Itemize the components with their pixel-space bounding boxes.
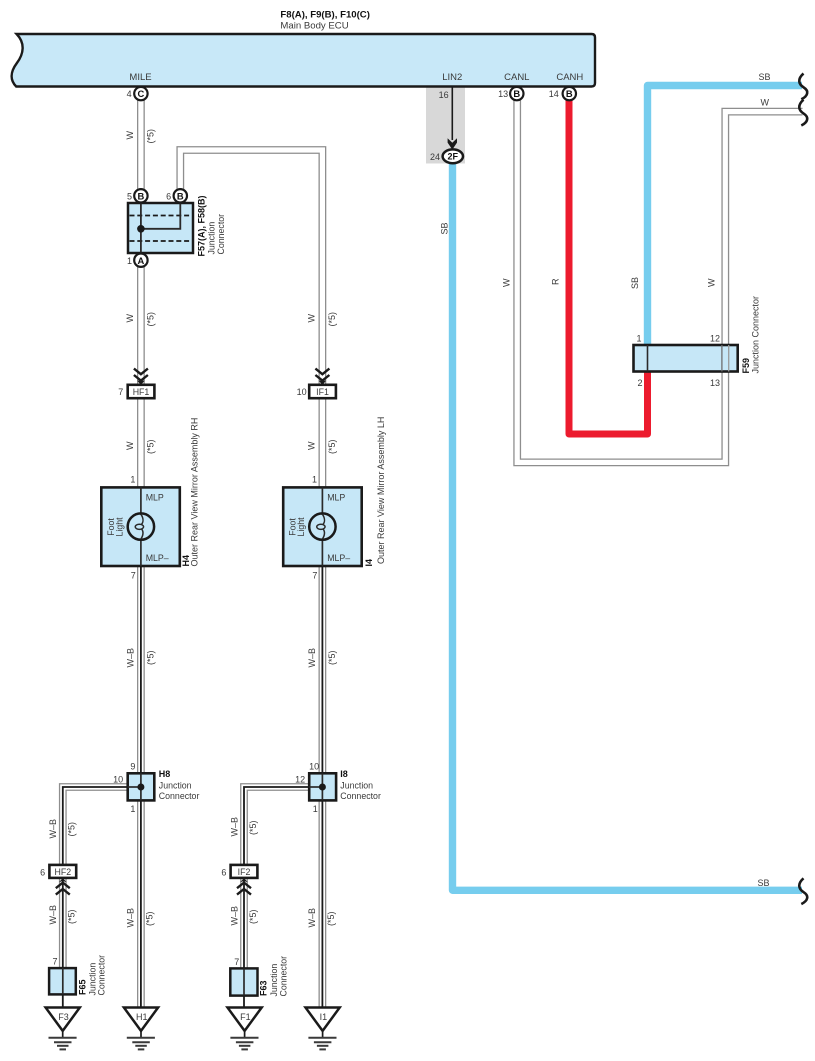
connector HF2: [49, 865, 76, 878]
component I4 Outer Rear View Mirror Assembly LH: [283, 487, 362, 566]
svg-text:(*5): (*5): [146, 129, 156, 144]
svg-text:A: A: [138, 255, 145, 266]
svg-text:Connector: Connector: [159, 791, 200, 801]
svg-text:7: 7: [118, 387, 123, 397]
svg-text:F3: F3: [58, 1012, 69, 1022]
wire F65 to ground F3: [62, 994, 64, 1009]
wire W F57 pin6 to IF1: [180, 150, 322, 385]
svg-text:SB: SB: [439, 222, 449, 234]
pin 4 (C) of ECU: [134, 87, 147, 100]
connector pin 24 (2F): [443, 149, 463, 163]
svg-text:LIN2: LIN2: [442, 72, 462, 83]
wire W CANL pin13 to F59 pin13: [517, 100, 725, 462]
svg-text:W–B: W–B: [48, 819, 58, 839]
svg-text:MLP–: MLP–: [327, 553, 350, 563]
svg-text:10: 10: [309, 762, 319, 772]
junction node dot in H8: [137, 784, 144, 791]
svg-text:HF2: HF2: [54, 867, 71, 877]
svg-text:SB: SB: [758, 878, 770, 888]
svg-text:Junction: Junction: [159, 781, 192, 791]
wire W HF1 to H4 pin1: [137, 398, 145, 488]
svg-text:F8(A), F9(B), F10(C): F8(A), F9(B), F10(C): [280, 10, 370, 21]
svg-text:W–B: W–B: [307, 648, 317, 668]
wire W MILE pin4 to F57 pin5: [137, 100, 145, 189]
ground symbol F1: [230, 1031, 258, 1050]
junction connector I8 box: [309, 773, 336, 800]
junction connector F59 box: [634, 345, 738, 372]
svg-text:MLP–: MLP–: [146, 553, 169, 563]
wire W-B I8 pin1 to ground I1: [318, 800, 326, 1008]
svg-text:Junction: Junction: [340, 781, 373, 791]
svg-text:B: B: [138, 190, 145, 201]
svg-text:HF1: HF1: [133, 387, 150, 397]
ground symbol H1: [127, 1031, 155, 1050]
svg-text:W: W: [307, 441, 317, 450]
svg-text:C: C: [138, 88, 145, 99]
svg-text:1: 1: [312, 475, 317, 485]
wire R CANH pin14 to F59 pin2: [569, 100, 648, 434]
svg-text:I4: I4: [364, 559, 374, 567]
svg-text:Light: Light: [115, 517, 125, 537]
svg-text:(*5): (*5): [326, 911, 336, 926]
shield chevrons above IF1: [315, 369, 329, 381]
break squiggle SB bottom: [799, 878, 807, 904]
ECU box Main Body ECU: [12, 34, 595, 87]
svg-text:1: 1: [130, 804, 135, 814]
svg-text:CANL: CANL: [504, 72, 529, 83]
svg-text:F63: F63: [259, 980, 269, 996]
svg-text:Main Body ECU: Main Body ECU: [280, 20, 348, 31]
svg-text:7: 7: [131, 571, 136, 581]
junction connector F57(A), F58(B) box: [128, 203, 193, 253]
svg-text:13: 13: [498, 89, 508, 99]
wire W-B I4 pin7 to I8 pin10: [318, 566, 326, 775]
pin 5 (B) of F57: [134, 189, 147, 202]
junction connector F65 box: [49, 968, 76, 994]
svg-text:4: 4: [127, 89, 132, 99]
pin 13 (B) of ECU (CANL): [510, 87, 523, 100]
svg-text:10: 10: [113, 774, 123, 784]
pin 1 (A) of F57: [134, 254, 147, 267]
wire W-B I8 pin12 to IF2: [244, 787, 309, 866]
svg-text:SB: SB: [630, 277, 640, 289]
junction connector H8 box: [128, 773, 155, 800]
svg-text:(*5): (*5): [327, 650, 337, 665]
junction node dot in F57: [137, 225, 145, 233]
ground symbol F3: [49, 1031, 77, 1050]
svg-text:(*5): (*5): [67, 909, 77, 924]
svg-text:(*5): (*5): [145, 911, 155, 926]
break squiggle W top: [799, 100, 807, 126]
svg-text:(*5): (*5): [327, 312, 337, 327]
svg-text:B: B: [177, 190, 184, 201]
svg-text:W–B: W–B: [48, 905, 58, 925]
shield band LIN2: [426, 87, 465, 163]
svg-text:MILE: MILE: [129, 72, 151, 83]
svg-text:13: 13: [710, 378, 720, 388]
svg-text:16: 16: [439, 90, 449, 100]
wire inside F59 pin1 to pin2: [647, 345, 649, 372]
svg-text:I1: I1: [320, 1012, 328, 1022]
connector IF2: [231, 865, 258, 878]
svg-text:F57(A), F58(B): F57(A), F58(B): [197, 195, 207, 256]
svg-text:W: W: [307, 314, 317, 323]
wire W-B H4 pin7 to H8 pin9: [137, 566, 145, 775]
component H4 Outer Rear View Mirror Assembly RH: [101, 487, 180, 566]
svg-text:Junction: Junction: [269, 964, 279, 997]
svg-text:H1: H1: [136, 1012, 148, 1022]
svg-text:B: B: [566, 88, 573, 99]
pin 6 (B) of F57: [174, 189, 187, 202]
svg-text:W: W: [125, 314, 135, 323]
junction node dot in I8: [319, 784, 326, 791]
wire F63 to ground F1: [243, 995, 245, 1009]
wire SB F59 pin1 to right edge: [648, 86, 803, 347]
svg-text:1: 1: [130, 475, 135, 485]
svg-text:1: 1: [636, 334, 641, 344]
connector HF1: [128, 385, 155, 398]
svg-text:(*5): (*5): [67, 822, 77, 837]
svg-text:Outer Rear View Mirror Assembl: Outer Rear View Mirror Assembly RH: [189, 418, 199, 567]
svg-text:SB: SB: [759, 72, 771, 82]
svg-text:CANH: CANH: [556, 72, 583, 83]
svg-text:F1: F1: [240, 1012, 251, 1022]
svg-text:IF1: IF1: [316, 387, 329, 397]
wire inside F59 pin12 to pin13: [721, 345, 723, 372]
svg-text:6: 6: [40, 867, 45, 877]
svg-text:H8: H8: [159, 769, 171, 779]
wire W-B IF2 to F63 pin7: [240, 878, 248, 970]
svg-text:W: W: [761, 98, 770, 108]
svg-text:W: W: [125, 131, 135, 140]
junction connector F63 box: [230, 968, 257, 995]
svg-text:Light: Light: [296, 517, 306, 537]
svg-text:1: 1: [313, 804, 318, 814]
svg-text:B: B: [513, 88, 520, 99]
svg-text:9: 9: [130, 762, 135, 772]
foot light bulb I4: [321, 487, 323, 515]
ground triangle F3: [46, 1008, 80, 1031]
wire SB LIN2 pin24 to right edge: [453, 162, 803, 890]
svg-text:W–B: W–B: [307, 908, 317, 928]
svg-text:6: 6: [166, 191, 171, 201]
svg-text:MLP: MLP: [327, 493, 345, 503]
svg-text:MLP: MLP: [146, 493, 164, 503]
shield chevrons below IF2: [240, 878, 248, 882]
svg-text:24: 24: [430, 152, 440, 162]
foot light bulb H4: [140, 487, 142, 515]
wire W-B H8 pin10 to HF2: [63, 787, 128, 866]
ground symbol I1: [308, 1031, 336, 1050]
svg-text:Connector: Connector: [340, 791, 381, 801]
svg-text:W–B: W–B: [229, 817, 239, 837]
ground triangle H1: [124, 1008, 158, 1031]
svg-text:7: 7: [52, 956, 57, 966]
svg-text:7: 7: [234, 957, 239, 967]
shield chevrons below HF2: [59, 878, 67, 882]
wire W IF1 to I4 pin1: [318, 398, 326, 488]
svg-text:F65: F65: [78, 979, 88, 995]
wire W-B H8 pin1 to ground H1: [137, 800, 145, 1008]
wire W F57 pin1 to HF1: [137, 267, 145, 385]
svg-text:(*5): (*5): [146, 650, 156, 665]
svg-text:(*5): (*5): [146, 439, 156, 454]
svg-text:W–B: W–B: [229, 906, 239, 926]
svg-text:W: W: [502, 278, 512, 287]
ground triangle I1: [306, 1008, 340, 1031]
svg-text:Junction Connector: Junction Connector: [751, 296, 761, 374]
ground triangle F1: [228, 1008, 262, 1031]
svg-text:F59: F59: [741, 358, 751, 374]
svg-text:W–B: W–B: [126, 908, 136, 928]
wire inside F57 junction to pin6: [141, 203, 180, 229]
svg-text:W–B: W–B: [126, 648, 136, 668]
svg-text:Connector: Connector: [97, 955, 107, 996]
wire W-B HF2 to F65 pin7: [59, 878, 67, 970]
svg-text:(*5): (*5): [248, 909, 258, 924]
svg-text:W: W: [125, 441, 135, 450]
svg-text:W: W: [706, 278, 716, 287]
svg-text:10: 10: [297, 387, 307, 397]
shield chevrons above HF1: [134, 369, 148, 381]
svg-text:Connector: Connector: [279, 956, 289, 997]
svg-text:(*5): (*5): [248, 820, 258, 835]
svg-text:IF2: IF2: [238, 867, 251, 877]
svg-text:2F: 2F: [448, 152, 459, 162]
svg-text:12: 12: [710, 334, 720, 344]
svg-text:(*5): (*5): [327, 439, 337, 454]
svg-text:Outer Rear View Mirror Assembl: Outer Rear View Mirror Assembly LH: [376, 417, 386, 564]
svg-text:2: 2: [637, 378, 642, 388]
wire W right edge to F59 pin12: [725, 112, 802, 346]
svg-text:(*5): (*5): [146, 312, 156, 327]
break squiggle SB top: [799, 74, 807, 100]
svg-text:6: 6: [221, 867, 226, 877]
svg-text:12: 12: [295, 774, 305, 784]
connector IF1: [309, 385, 336, 398]
svg-text:I8: I8: [340, 769, 348, 779]
svg-text:5: 5: [127, 191, 132, 201]
pin 14 (B) of ECU (CANH): [563, 87, 576, 100]
svg-text:1: 1: [127, 256, 132, 266]
svg-text:Junction: Junction: [207, 222, 217, 255]
wire inside F57 pin5 to pin1: [140, 203, 142, 253]
svg-text:14: 14: [549, 89, 559, 99]
arrow LIN2 to connector 2F: [451, 87, 453, 140]
svg-text:Connector: Connector: [216, 214, 226, 255]
svg-text:R: R: [550, 278, 560, 285]
svg-text:7: 7: [312, 571, 317, 581]
